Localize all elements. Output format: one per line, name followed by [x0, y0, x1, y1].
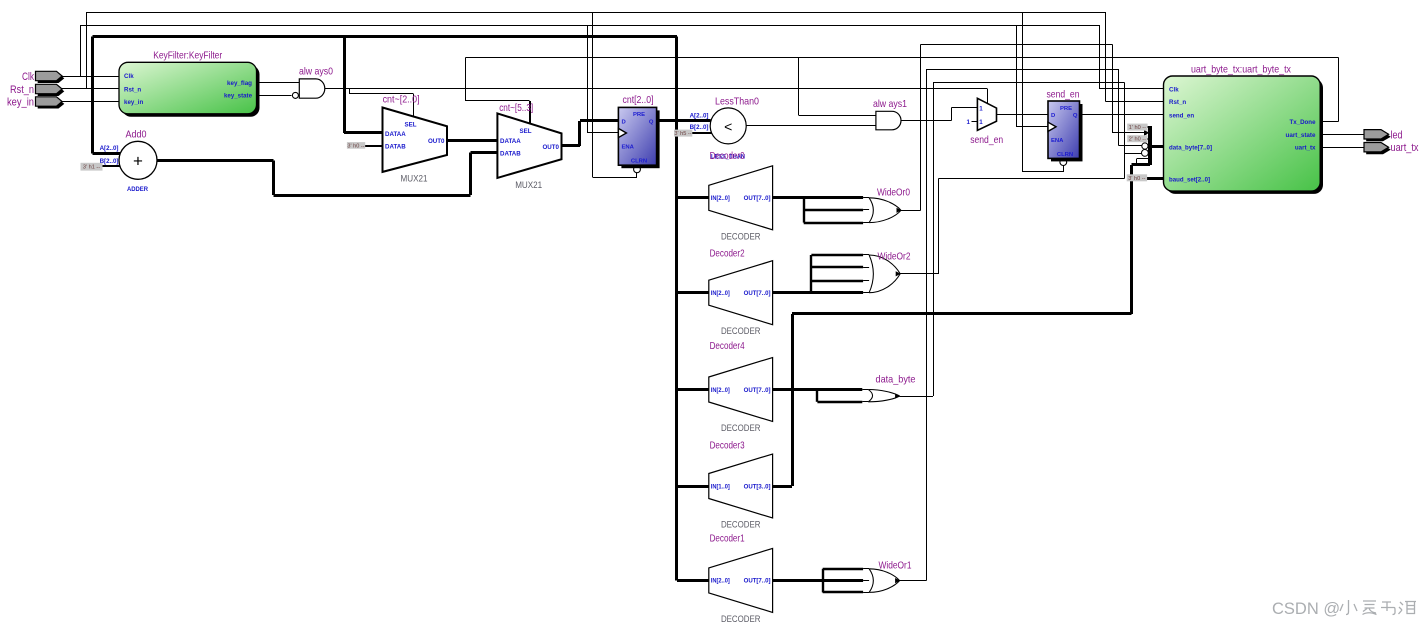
or-gate WideOr1: [773, 559, 912, 592]
svg-text:CSDN @: CSDN @: [1272, 600, 1340, 618]
svg-text:Add0: Add0: [126, 128, 147, 140]
svg-text:LessThan0: LessThan0: [715, 96, 759, 108]
svg-text:PRE: PRE: [1060, 106, 1072, 112]
svg-text:OUT0: OUT0: [542, 144, 559, 151]
svg-text:OUT[7..0]: OUT[7..0]: [744, 578, 771, 585]
svg-text:Decoder3: Decoder3: [710, 439, 745, 451]
svg-text:ENA: ENA: [1051, 138, 1064, 144]
svg-text:IN[2..0]: IN[2..0]: [711, 578, 730, 585]
svg-text:send_en: send_en: [1047, 88, 1080, 100]
svg-text:3' h5 --: 3' h5 --: [674, 131, 691, 137]
svg-text:IN[2..0]: IN[2..0]: [711, 387, 730, 394]
svg-text:1' h0 --: 1' h0 --: [1129, 125, 1146, 131]
svg-text:1: 1: [979, 119, 983, 126]
node CLRN bubble send_en: [1060, 159, 1067, 166]
svg-text:<: <: [724, 119, 732, 135]
output pin led: [1364, 129, 1403, 141]
wire LessThan0 B constant: [692, 132, 712, 134]
svg-text:DATAA: DATAA: [500, 138, 521, 145]
svg-text:A[2..0]: A[2..0]: [100, 145, 119, 152]
wire MUX2 OUT0 to cnt D: [562, 121, 619, 146]
wire key_in net: [62, 101, 119, 103]
wire Tx_Done feedback net: [466, 58, 1339, 124]
wire always0 output net: [325, 89, 988, 118]
output pin uart_tx: [1364, 142, 1419, 154]
svg-text:Rst_n: Rst_n: [124, 86, 141, 93]
wire Rst_n net: [62, 12, 1164, 177]
wire WideOr1 output net: [900, 69, 1142, 580]
wire decoder input stubs: [677, 198, 709, 581]
svg-text:3' h0 --: 3' h0 --: [347, 143, 364, 149]
svg-text:alw ays1: alw ays1: [873, 98, 907, 110]
wire Clk net: [62, 25, 1164, 133]
svg-text:ADDER: ADDER: [127, 186, 148, 193]
svg-text:DECODER: DECODER: [721, 326, 761, 337]
glyph yu: [1381, 602, 1395, 615]
svg-text:IN[2..0]: IN[2..0]: [711, 195, 730, 202]
constant 1'h0 (data_byte bit): [1127, 124, 1147, 132]
svg-text:SEL: SEL: [519, 128, 531, 135]
wire cnt bus net (Q feedback): [92, 36, 710, 580]
svg-text:DATAA: DATAA: [385, 131, 406, 138]
svg-text:Clk: Clk: [1169, 87, 1179, 94]
wire MUX1 OUT0 to MUX2 DATAA: [447, 139, 497, 142]
svg-text:DECODER: DECODER: [721, 614, 761, 625]
register cnt[2..0]: [618, 94, 659, 168]
svg-text:Clk: Clk: [124, 73, 134, 80]
module KeyFilter:KeyFilter: [119, 50, 260, 117]
svg-text:B[2..0]: B[2..0]: [690, 124, 709, 131]
svg-text:led: led: [1391, 129, 1403, 141]
adder Add0: [100, 128, 157, 193]
decoder Decoder1: [709, 533, 773, 625]
svg-text:2' h0 --: 2' h0 --: [1129, 137, 1146, 143]
svg-text:OUT[3..0]: OUT[3..0]: [744, 483, 771, 490]
svg-text:Rst_n: Rst_n: [1169, 99, 1186, 106]
svg-text:A[2..0]: A[2..0]: [690, 113, 709, 120]
mux send_en: [967, 98, 1004, 146]
svg-text:3' h1 --: 3' h1 --: [83, 165, 100, 171]
wire Decoder3 output bus to data_byte bar: [773, 165, 1151, 487]
svg-text:DATAB: DATAB: [385, 144, 406, 151]
constant 3'h1 (Add0 B): [81, 163, 103, 171]
svg-text:DECODER: DECODER: [721, 231, 761, 242]
wire MUX1 DATAB constant: [365, 145, 382, 147]
wire WideOr2 output net: [900, 159, 1148, 274]
input pin Rst_n: [10, 84, 64, 96]
svg-text:WideOr1: WideOr1: [879, 559, 912, 571]
glyph xia: [1363, 601, 1377, 615]
svg-text:OUT[7..0]: OUT[7..0]: [744, 195, 771, 202]
wire Add0 inputs: [102, 165, 120, 167]
svg-text:WideOr0: WideOr0: [877, 187, 910, 199]
svg-text:OUT[7..0]: OUT[7..0]: [744, 290, 771, 297]
svg-text:IN[2..0]: IN[2..0]: [711, 290, 730, 297]
wire data_byte bus bar: [1144, 126, 1163, 165]
wire Add0 output to MUX2 DATAB: [157, 152, 497, 195]
or-gate WideOr2: [773, 251, 911, 293]
constant 2'h0 (data_byte bits): [1127, 135, 1147, 143]
svg-text:WideOr2: WideOr2: [878, 251, 911, 263]
svg-text:uart_state: uart_state: [1286, 132, 1317, 139]
svg-text:Decoder2: Decoder2: [710, 248, 745, 260]
input pin key_in: [7, 96, 64, 108]
svg-text:Rst_n: Rst_n: [10, 84, 34, 96]
svg-text:key_in: key_in: [7, 96, 34, 108]
svg-text:Decoder0: Decoder0: [710, 150, 745, 162]
wire data_byte OR output net: [900, 83, 1142, 397]
glyph xiao: [1346, 600, 1349, 615]
and-gate always0: [292, 66, 333, 99]
svg-text:send_en: send_en: [1169, 113, 1194, 120]
or-gate WideOr0: [773, 187, 911, 224]
svg-text:OUT0: OUT0: [428, 138, 445, 145]
svg-text:1: 1: [967, 119, 971, 126]
module uart_byte_tx:uart_byte_tx: [1164, 63, 1324, 194]
svg-text:key_in: key_in: [124, 99, 143, 106]
svg-text:send_en: send_en: [970, 134, 1003, 146]
svg-text:DECODER: DECODER: [721, 520, 761, 531]
svg-text:key_state: key_state: [224, 93, 253, 100]
svg-text:cnt[2..0]: cnt[2..0]: [623, 94, 654, 106]
wire key_flag net: [257, 82, 300, 84]
svg-text:Clk: Clk: [22, 71, 34, 83]
svg-text:uart_byte_tx:uart_byte_tx: uart_byte_tx:uart_byte_tx: [1191, 63, 1292, 75]
register send_en: [1047, 88, 1083, 161]
svg-text:CLRN: CLRN: [631, 159, 647, 165]
svg-text:Tx_Done: Tx_Done: [1290, 119, 1317, 126]
wire baud_set constant to uart: [1147, 177, 1164, 180]
wire uart_state to led pin: [1320, 134, 1364, 136]
svg-text:cnt~[2..0]: cnt~[2..0]: [383, 93, 420, 105]
constant 3'h5 (LessThan0 B): [674, 130, 692, 138]
mux MUX21 cnt~[2..0]: [383, 93, 448, 184]
svg-text:data_byte[7..0]: data_byte[7..0]: [1169, 144, 1212, 151]
svg-text:SEL: SEL: [404, 122, 416, 129]
svg-text:PRE: PRE: [633, 112, 645, 118]
svg-text:1: 1: [979, 106, 983, 113]
svg-text:KeyFilter:KeyFilter: KeyFilter:KeyFilter: [153, 50, 222, 62]
svg-text:3' h0 --: 3' h0 --: [1128, 176, 1145, 182]
svg-text:Decoder1: Decoder1: [710, 533, 745, 545]
wire send_en mux out to DFF D: [997, 114, 1048, 116]
svg-text:Q: Q: [649, 119, 654, 125]
svg-text:DATAB: DATAB: [500, 150, 521, 157]
svg-text:baud_set[2..0]: baud_set[2..0]: [1169, 177, 1210, 184]
wire LessThan0 output net: [746, 125, 876, 127]
constant 3'h0 (MUX1 DATAB): [347, 142, 365, 149]
svg-text:D: D: [1051, 113, 1055, 119]
watermark CSDN: [1272, 600, 1416, 618]
mux MUX21 cnt~[5..3]: [497, 102, 561, 191]
wire send_en Q to uart: [1080, 114, 1164, 116]
svg-text:alw ays0: alw ays0: [299, 66, 333, 78]
svg-text:CLRN: CLRN: [1057, 152, 1073, 158]
and-gate always1: [873, 98, 907, 130]
decoder Decoder3: [709, 439, 773, 530]
or-gate data_byte OR: [773, 373, 916, 402]
svg-text:OUT[7..0]: OUT[7..0]: [744, 387, 771, 394]
wire always1 output net: [901, 108, 977, 121]
comparator LessThan0: [690, 96, 760, 161]
svg-text:Q: Q: [1073, 113, 1078, 119]
wire key_state net: [257, 95, 292, 97]
node CLRN bubble cnt: [634, 166, 641, 173]
input pin Clk: [22, 71, 64, 83]
svg-text:uart_tx: uart_tx: [1391, 142, 1419, 154]
decoder Decoder4: [709, 340, 773, 434]
svg-text:Decoder4: Decoder4: [710, 340, 745, 352]
svg-text:+: +: [133, 152, 143, 171]
svg-text:DECODER: DECODER: [721, 423, 761, 434]
glyph jiu: [1399, 602, 1404, 614]
wire uart_tx to output pin: [1320, 147, 1364, 149]
svg-text:data_byte: data_byte: [876, 373, 916, 385]
svg-text:D: D: [622, 119, 626, 125]
node bus tap circle 1: [1142, 143, 1148, 149]
decoder Decoder0: [709, 150, 773, 242]
decoder Decoder2: [709, 248, 773, 338]
svg-text:IN[1..0]: IN[1..0]: [711, 483, 730, 490]
svg-text:cnt~[5..3]: cnt~[5..3]: [499, 102, 533, 114]
constant 3'h0 (baud_set): [1127, 174, 1147, 182]
svg-text:MUX21: MUX21: [401, 174, 428, 185]
node bus tap circle 2: [1142, 150, 1149, 157]
wire constant 1 to send_en mux: [972, 121, 978, 123]
svg-text:ENA: ENA: [622, 145, 635, 151]
svg-text:uart_tx: uart_tx: [1295, 145, 1316, 152]
wire WideOr0 output net: [901, 45, 1149, 211]
svg-text:key_flag: key_flag: [227, 80, 252, 87]
svg-text:MUX21: MUX21: [515, 180, 542, 191]
